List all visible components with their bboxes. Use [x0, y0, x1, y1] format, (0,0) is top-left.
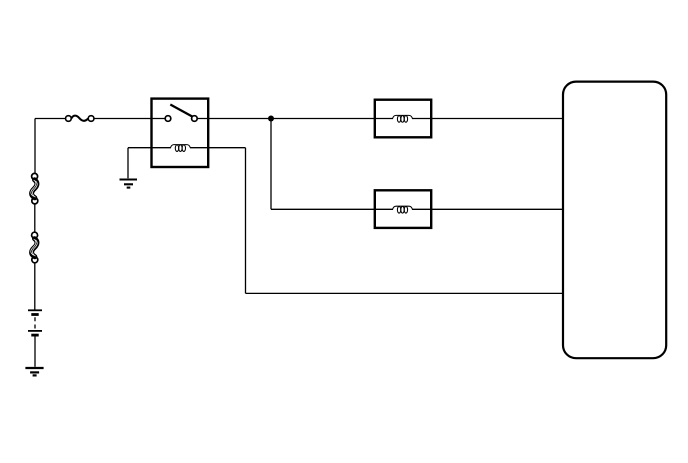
relay K1 box	[152, 99, 209, 167]
ECU U1 (control module box)	[563, 82, 666, 359]
relay K1 coil	[171, 145, 191, 152]
wire: battery feed top horizontal (left segment to fuse)	[35, 118, 66, 120]
fusible link FL1	[31, 173, 38, 204]
wire: battery negative to ground	[34, 337, 36, 367]
relay K1 switch contacts and blade	[165, 105, 197, 122]
ground G1 (relay coil ground)	[120, 180, 138, 188]
fuse F1	[66, 116, 94, 122]
wire: fuse to relay	[94, 118, 152, 120]
wire: between fusible links	[34, 204, 36, 232]
wire: relay output to junction A	[208, 118, 271, 120]
node A (junction dot)	[268, 116, 274, 122]
wire: coil lead vertical drop	[245, 148, 247, 294]
ground G2 (battery ground)	[25, 368, 43, 375]
wire: relay coil left lead to ground branch	[128, 147, 171, 149]
wire: relay coil right lead	[190, 147, 246, 149]
wire: fusible link FL2 to battery	[34, 263, 36, 310]
relay K1 switch wire stubs inside box	[152, 118, 209, 120]
wire: ground stub below relay	[127, 148, 129, 179]
wire: junction A to solenoid L1 box	[271, 118, 375, 120]
solenoid L2 box	[375, 190, 431, 228]
wire: to solenoid L2 box	[271, 208, 375, 210]
wire: L1 to ECU	[431, 118, 563, 120]
wire: left vertical feed from corner to fusible link FL1	[34, 119, 36, 174]
solenoid L1 box	[375, 100, 431, 138]
solenoid L2 lead wires inside box	[375, 208, 431, 210]
solenoid L1 coil	[393, 115, 413, 122]
battery BT1	[28, 310, 42, 335]
solenoid L2 coil	[393, 206, 413, 213]
wire: junction A vertical drop	[270, 119, 272, 210]
wire: L2 to ECU	[431, 208, 563, 210]
solenoid L1 lead wires inside box	[375, 118, 431, 120]
wire: coil lead bottom horizontal to ECU	[246, 292, 564, 294]
fusible link FL2	[31, 232, 38, 263]
